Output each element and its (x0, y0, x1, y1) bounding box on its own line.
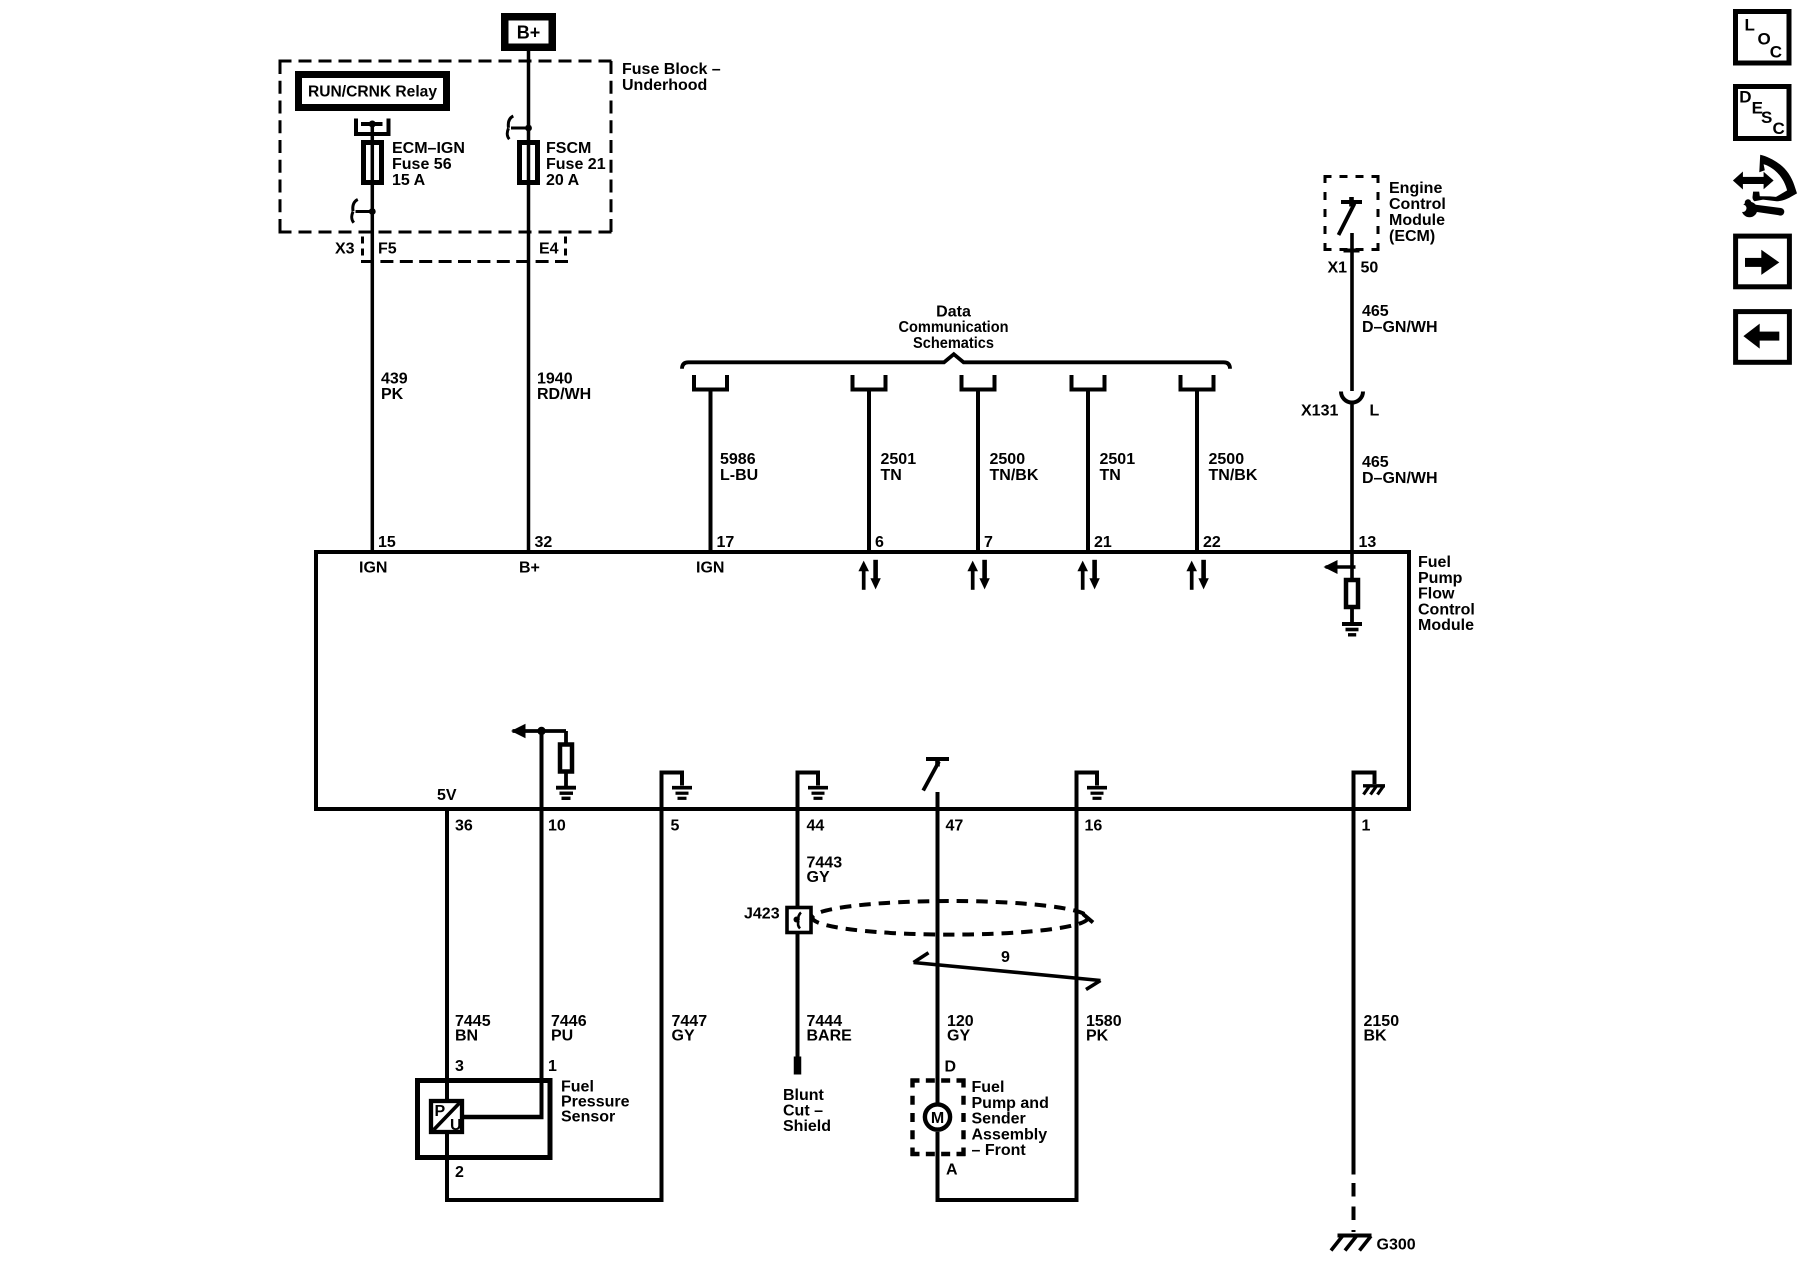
svg-text:10: 10 (548, 817, 566, 834)
svg-text:GY: GY (672, 1027, 695, 1044)
svg-text:5986: 5986 (720, 451, 756, 468)
svg-text:Engine: Engine (1389, 180, 1442, 197)
svg-text:TN/BK: TN/BK (990, 467, 1039, 484)
svg-text:M: M (931, 1110, 944, 1127)
svg-text:E4: E4 (539, 241, 559, 258)
svg-text:L: L (1370, 403, 1380, 420)
svg-text:B+: B+ (519, 560, 540, 577)
svg-text:Assembly: Assembly (972, 1126, 1048, 1143)
svg-text:465: 465 (1362, 303, 1389, 320)
svg-text:D: D (945, 1059, 957, 1076)
svg-text:7: 7 (984, 534, 993, 551)
svg-text:D: D (1739, 88, 1751, 107)
svg-text:36: 36 (455, 817, 473, 834)
svg-text:J423: J423 (744, 906, 780, 923)
svg-text:1940: 1940 (537, 371, 573, 388)
svg-text:15: 15 (378, 534, 396, 551)
svg-text:1: 1 (548, 1058, 557, 1075)
svg-text:Control: Control (1389, 196, 1446, 213)
svg-text:TN: TN (881, 467, 902, 484)
svg-text:Communication: Communication (899, 319, 1009, 336)
svg-text:Data: Data (936, 303, 971, 320)
svg-text:Schematics: Schematics (913, 335, 994, 352)
svg-text:1: 1 (1362, 817, 1371, 834)
svg-text:Pump: Pump (1418, 570, 1463, 587)
svg-text:X1: X1 (1328, 259, 1348, 276)
svg-text:BN: BN (455, 1027, 478, 1044)
svg-text:Underhood: Underhood (622, 77, 707, 94)
svg-text:5: 5 (671, 817, 680, 834)
svg-text:44: 44 (807, 817, 825, 834)
svg-text:439: 439 (381, 371, 408, 388)
svg-text:P: P (435, 1103, 446, 1120)
svg-text:Module: Module (1389, 212, 1445, 229)
svg-text:U: U (450, 1117, 462, 1134)
svg-text:X3: X3 (335, 241, 355, 258)
svg-text:BK: BK (1364, 1027, 1388, 1044)
svg-text:O: O (1758, 30, 1771, 49)
svg-text:2500: 2500 (990, 451, 1026, 468)
svg-text:PU: PU (551, 1027, 573, 1044)
svg-text:Shield: Shield (783, 1118, 831, 1135)
svg-text:IGN: IGN (696, 560, 724, 577)
svg-text:S: S (1761, 108, 1772, 127)
svg-text:GY: GY (947, 1027, 970, 1044)
svg-text:20 A: 20 A (546, 172, 580, 189)
svg-text:F5: F5 (378, 241, 397, 258)
svg-text:15 A: 15 A (392, 172, 426, 189)
svg-text:Cut –: Cut – (783, 1102, 823, 1119)
svg-text:2: 2 (455, 1164, 464, 1181)
svg-text:FSCM: FSCM (546, 140, 591, 157)
svg-text:Fuse 56: Fuse 56 (392, 156, 452, 173)
svg-text:50: 50 (1361, 259, 1379, 276)
svg-text:32: 32 (535, 534, 553, 551)
svg-text:BARE: BARE (807, 1027, 853, 1044)
svg-text:A: A (946, 1161, 958, 1178)
svg-text:Blunt: Blunt (783, 1087, 825, 1104)
svg-text:IGN: IGN (359, 560, 387, 577)
svg-text:D–GN/WH: D–GN/WH (1362, 319, 1438, 336)
svg-text:GY: GY (807, 869, 830, 886)
svg-text:6: 6 (875, 534, 884, 551)
svg-text:Fuse Block –: Fuse Block – (622, 61, 721, 78)
svg-text:2500: 2500 (1209, 451, 1245, 468)
svg-text:L-BU: L-BU (720, 467, 758, 484)
svg-text:2501: 2501 (1100, 451, 1136, 468)
svg-text:17: 17 (717, 534, 735, 551)
svg-text:TN/BK: TN/BK (1209, 467, 1258, 484)
svg-text:5V: 5V (437, 787, 457, 804)
svg-text:– Front: – Front (972, 1142, 1027, 1159)
svg-text:22: 22 (1203, 534, 1221, 551)
svg-text:RUN/CRNK Relay: RUN/CRNK Relay (308, 84, 437, 101)
svg-text:21: 21 (1094, 534, 1112, 551)
svg-text:Flow: Flow (1418, 586, 1455, 603)
svg-text:RD/WH: RD/WH (537, 386, 591, 403)
svg-text:Fuse 21: Fuse 21 (546, 156, 606, 173)
svg-text:465: 465 (1362, 454, 1389, 471)
svg-text:Fuel: Fuel (972, 1079, 1005, 1096)
svg-text:47: 47 (946, 817, 964, 834)
svg-text:TN: TN (1100, 467, 1121, 484)
svg-text:PK: PK (381, 386, 404, 403)
svg-text:3: 3 (455, 1058, 464, 1075)
svg-text:Pump and: Pump and (972, 1095, 1049, 1112)
svg-text:X131: X131 (1301, 403, 1338, 420)
svg-text:Control: Control (1418, 601, 1475, 618)
svg-text:D–GN/WH: D–GN/WH (1362, 470, 1438, 487)
svg-text:Fuel: Fuel (1418, 554, 1451, 571)
svg-text:C: C (1770, 42, 1782, 61)
svg-text:ECM–IGN: ECM–IGN (392, 140, 465, 157)
svg-text:Sender: Sender (972, 1111, 1026, 1128)
svg-text:C: C (1773, 119, 1785, 138)
svg-text:2501: 2501 (881, 451, 917, 468)
svg-text:16: 16 (1085, 817, 1103, 834)
svg-text:G300: G300 (1377, 1237, 1416, 1254)
svg-text:13: 13 (1359, 534, 1377, 551)
svg-text:Sensor: Sensor (561, 1108, 615, 1125)
svg-text:9: 9 (1001, 949, 1010, 966)
svg-text:Module: Module (1418, 617, 1474, 634)
svg-text:L: L (1745, 15, 1755, 34)
svg-text:PK: PK (1086, 1027, 1109, 1044)
svg-text:B+: B+ (517, 23, 541, 43)
svg-text:(ECM): (ECM) (1389, 228, 1435, 245)
